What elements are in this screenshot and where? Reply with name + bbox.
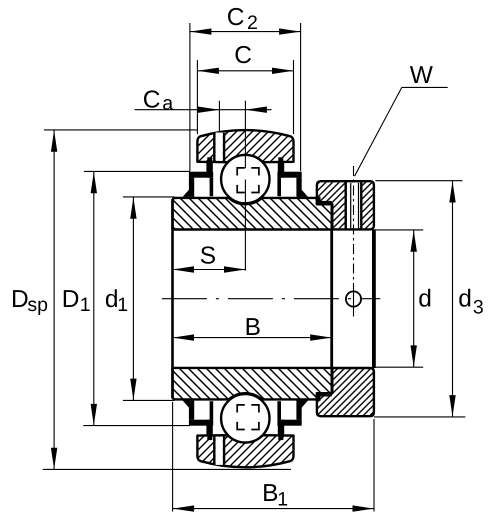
svg-text:C: C (234, 42, 252, 69)
svg-text:W: W (410, 62, 434, 89)
svg-text:d: d (458, 285, 472, 312)
svg-text:C: C (143, 86, 161, 113)
svg-text:D: D (11, 286, 29, 313)
set screw channel in collar (347, 183, 360, 229)
bearing centre plane line (244, 101, 246, 169)
collar eccentric recess step, bottom (317, 392, 332, 396)
svg-text:d: d (418, 285, 432, 312)
outer ring top section (spherical OD, hatched) (197, 130, 293, 162)
svg-text:2: 2 (247, 12, 258, 34)
collar outer cylindrical face (372, 229, 376, 368)
collar eccentric recess step, top (317, 201, 332, 205)
ball centre mark top (237, 168, 259, 193)
seal top right (277, 172, 301, 178)
eccentric locking collar top section (317, 181, 374, 229)
svg-text:sp: sp (27, 294, 48, 316)
dimension d (375, 229, 423, 231)
svg-text:1: 1 (80, 294, 91, 316)
dimension Ca (218, 101, 220, 132)
svg-text:3: 3 (473, 297, 484, 319)
ball top (221, 155, 269, 203)
svg-text:S: S (200, 243, 216, 270)
set screw hole on collar cylinder (346, 291, 361, 306)
ball bottom (221, 394, 269, 442)
dimension Dsp (44, 129, 198, 131)
svg-text:B: B (245, 314, 261, 341)
dimension B (173, 337, 332, 339)
dimension B1 (172, 402, 174, 512)
inner ring top section (hatched) (173, 198, 332, 230)
dimension D1 (84, 170, 190, 172)
inner ring left end face (171, 199, 174, 399)
svg-text:B: B (262, 480, 278, 507)
set screw axis (dash-dot) (353, 166, 355, 283)
svg-text:D: D (62, 286, 80, 313)
bearing axis (dash-dot centre line) (162, 298, 380, 300)
eccentric locking collar bottom section (317, 368, 374, 416)
svg-text:C: C (227, 4, 245, 31)
seal top left (189, 172, 213, 178)
inner ring bottom section (hatched) (173, 368, 332, 400)
outer ring bottom section (hatched) (197, 435, 293, 467)
dimension d1 (123, 196, 175, 198)
lubrication hole in outer ring, bottom (216, 437, 223, 465)
dimension C (196, 60, 198, 134)
seal bottom right (277, 420, 301, 426)
dimension d3 (375, 180, 462, 182)
seal bottom left (189, 420, 213, 426)
dimension S (173, 269, 246, 271)
inner ring right end face / collar bore edge (330, 230, 333, 368)
lubrication hole in outer ring, top (216, 133, 223, 161)
svg-text:1: 1 (277, 489, 288, 511)
dimension C2 (189, 23, 191, 171)
ball centre mark bottom (237, 405, 259, 430)
svg-text:1: 1 (117, 294, 128, 316)
svg-text:a: a (162, 92, 173, 114)
